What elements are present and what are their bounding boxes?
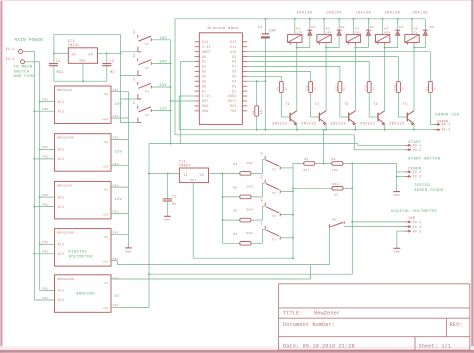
svg-text:R5: R5 bbox=[233, 186, 237, 190]
svg-text:12V: 12V bbox=[296, 30, 302, 34]
wire X1-1 to left bus bbox=[23, 51, 35, 53]
pin D12 (right 1) bbox=[242, 41, 247, 43]
svg-text:#5: #5 bbox=[332, 218, 336, 221]
pin D9 (right 4) bbox=[242, 56, 247, 58]
connector X2-2 bbox=[405, 175, 409, 177]
relay coil K5 5V bbox=[405, 35, 419, 43]
wire IC2 input stub bbox=[54, 52, 68, 54]
svg-text:500: 500 bbox=[246, 208, 252, 212]
wire coil K1 to +rail bbox=[294, 19, 296, 35]
wire X4-2 line bbox=[344, 226, 405, 228]
svg-text:ERROR LED: ERROR LED bbox=[435, 113, 460, 117]
svg-text:D7: D7 bbox=[232, 65, 236, 69]
svg-text:A0: A0 bbox=[202, 55, 206, 59]
svg-text:X2-2: X2-2 bbox=[413, 175, 422, 179]
wire IC2 gnd stub bbox=[82, 63, 84, 81]
wire bottom return rail bbox=[193, 257, 293, 259]
wire PB1 module M4 bbox=[40, 243, 55, 245]
svg-text:REV:: REV: bbox=[450, 322, 463, 328]
svg-text:10M: 10M bbox=[269, 29, 276, 33]
pin D2 (right 11) bbox=[242, 90, 247, 92]
relay coil K4 48V bbox=[376, 35, 390, 43]
pin D13 (left 1) bbox=[195, 41, 200, 43]
svg-text:TESTED: TESTED bbox=[414, 184, 431, 188]
svg-text:S1: S1 bbox=[133, 30, 136, 34]
wire 12V feed down to IC1 area bbox=[148, 144, 150, 308]
pin A3 (left 7) bbox=[195, 70, 200, 72]
svg-text:R1: R1 bbox=[305, 157, 309, 161]
svg-text:K3: K3 bbox=[260, 198, 263, 202]
svg-text:R4: R4 bbox=[233, 162, 237, 166]
svg-text:R10: R10 bbox=[306, 85, 309, 91]
svg-text:+U0: +U0 bbox=[102, 213, 108, 216]
svg-text:VO: VO bbox=[89, 52, 93, 56]
pin D5 (right 8) bbox=[242, 75, 247, 77]
wire PB1 module M3 bbox=[40, 196, 55, 198]
resistor R11 1k bbox=[338, 82, 342, 93]
pin A0 (left 4) bbox=[195, 56, 200, 58]
pins under coil K1 bbox=[289, 42, 291, 44]
svg-text:R3: R3 bbox=[426, 87, 429, 91]
svg-text:R2: R2 bbox=[332, 157, 336, 161]
svg-text:AC1: AC1 bbox=[58, 195, 65, 199]
svg-text:1k: 1k bbox=[342, 87, 346, 91]
svg-text:12V: 12V bbox=[115, 151, 123, 155]
resistor R13 1k bbox=[397, 82, 401, 93]
svg-text:D10: D10 bbox=[230, 50, 237, 54]
wire coil K2 to +rail bbox=[323, 19, 325, 35]
wire resistor R9 to base T1 bbox=[280, 93, 282, 117]
svg-text:T4: T4 bbox=[373, 102, 378, 106]
wire coil K3 to transistor collector bbox=[354, 45, 356, 111]
svg-text:1k: 1k bbox=[401, 87, 405, 91]
pins under coil K4 bbox=[377, 42, 379, 44]
page frame left edge bbox=[0, 0, 2, 353]
wire R1-R2 bbox=[315, 163, 332, 165]
svg-text:Sheet: 1/1: Sheet: 1/1 bbox=[419, 343, 452, 349]
svg-text:7812L: 7812L bbox=[68, 44, 80, 48]
svg-text:M1: M1 bbox=[110, 70, 115, 74]
svg-text:1N4148: 1N4148 bbox=[326, 11, 342, 15]
svg-text:200: 200 bbox=[246, 185, 252, 189]
wire emitter T1 to gnd rail bbox=[296, 124, 298, 130]
svg-text:2N2222: 2N2222 bbox=[331, 123, 347, 127]
wire lower throw S4 bbox=[120, 122, 137, 124]
wire pin to resistor R13 bbox=[247, 56, 398, 58]
svg-text:-U0: -U0 bbox=[102, 141, 108, 144]
resistor R9 1k bbox=[279, 82, 283, 93]
wire rail2 (to X3-2) bbox=[175, 134, 354, 136]
capacitor C2 bbox=[49, 63, 58, 65]
transistor T5 2N2222 bbox=[406, 113, 408, 122]
wire T2 emitter tie bbox=[323, 130, 325, 164]
svg-text:PB1: PB1 bbox=[42, 287, 48, 290]
svg-text:R12: R12 bbox=[365, 85, 368, 91]
wire PB1 module M5 bbox=[40, 290, 55, 292]
svg-text:GND: GND bbox=[125, 250, 131, 253]
wire feed R5 bbox=[223, 196, 240, 198]
pin A4 (left 8) bbox=[195, 75, 200, 77]
svg-text:+U0: +U0 bbox=[102, 118, 108, 121]
connector X5-2 bbox=[434, 129, 438, 131]
wire contact K2 output bbox=[280, 190, 293, 192]
svg-text:+U0: +U0 bbox=[102, 261, 108, 264]
svg-text:AND FUSE: AND FUSE bbox=[14, 75, 36, 79]
svg-text:A5: A5 bbox=[202, 79, 206, 83]
switch S1 (48V) bbox=[137, 35, 139, 38]
svg-text:T1: T1 bbox=[286, 102, 291, 106]
svg-text:X5-2: X5-2 bbox=[442, 128, 451, 132]
wire feed R7 bbox=[223, 242, 240, 244]
pin D10 (right 3) bbox=[242, 51, 247, 53]
svg-text:X2-1: X2-1 bbox=[413, 170, 422, 174]
svg-text:48V: 48V bbox=[384, 30, 390, 34]
svg-text:MODULE2X4B: MODULE2X4B bbox=[57, 278, 74, 281]
resistor R1 4k7 bbox=[304, 162, 315, 166]
wire FB3 stub M1 bbox=[111, 91, 129, 93]
wire resistor R12 to base T4 bbox=[368, 93, 370, 117]
pin RST1 (right 13) bbox=[242, 100, 247, 102]
svg-text:+U0: +U0 bbox=[102, 307, 108, 310]
module box M2 MODULE2X4B bbox=[55, 134, 112, 172]
wire coil K4 to transistor collector bbox=[384, 45, 386, 111]
pin GND2 (right 12) bbox=[242, 95, 247, 97]
wire feed to R14 bbox=[293, 187, 332, 189]
svg-text:PB2: PB2 bbox=[42, 108, 48, 111]
wire pin to resistor R10 bbox=[247, 70, 310, 72]
svg-text:AC2: AC2 bbox=[58, 252, 65, 256]
wire to pin 5V bbox=[179, 95, 194, 97]
svg-text:5.5V: 5.5V bbox=[202, 94, 211, 98]
module box M3 MODULE2X4 bbox=[55, 181, 112, 219]
svg-text:D4: D4 bbox=[399, 25, 403, 29]
resistor R14 33 bbox=[332, 187, 343, 191]
svg-text:X4-2: X4-2 bbox=[413, 225, 422, 229]
svg-text:VI: VI bbox=[184, 173, 188, 177]
svg-text:1k: 1k bbox=[284, 87, 288, 91]
wire lower throw S2 bbox=[120, 74, 137, 76]
svg-text:SWITCH: SWITCH bbox=[14, 70, 31, 74]
svg-text:R9: R9 bbox=[277, 87, 280, 91]
wire coil K2 to transistor collector bbox=[325, 45, 327, 111]
module box M5 MODULE2X4B bbox=[55, 275, 112, 313]
svg-text:AC1: AC1 bbox=[58, 243, 65, 247]
wire emitter T4 to gnd rail bbox=[384, 124, 386, 130]
wire module M4 FB4 to long rail bbox=[111, 260, 118, 262]
svg-text:12V: 12V bbox=[115, 198, 123, 202]
wire IC2 output bbox=[98, 52, 121, 54]
svg-text:START BUTTON: START BUTTON bbox=[408, 158, 441, 162]
transistor T2 2N2222 bbox=[318, 113, 320, 122]
svg-text:15k: 15k bbox=[332, 168, 338, 172]
wire FB column vertical bbox=[128, 92, 130, 248]
svg-text:12V: 12V bbox=[159, 108, 167, 112]
svg-text:1N4148: 1N4148 bbox=[412, 11, 428, 15]
svg-text:-U0: -U0 bbox=[102, 189, 108, 192]
svg-text:RX1: RX1 bbox=[230, 104, 237, 108]
wire PB2 module M4 bbox=[34, 253, 54, 255]
svg-text:RST1: RST1 bbox=[228, 99, 237, 103]
op-amp IC1 7805T bbox=[179, 168, 208, 183]
wire diode D5 to coil bbox=[414, 47, 425, 49]
wire gnd rail (to X5-2) bbox=[179, 129, 436, 131]
resistor R8 18k bbox=[256, 81, 258, 106]
svg-text:ZENER DIODE: ZENER DIODE bbox=[414, 189, 444, 193]
wire emitter T2 to gnd rail bbox=[325, 124, 327, 130]
wire PB1 module M1 bbox=[40, 101, 55, 103]
connector X2-1 bbox=[405, 171, 409, 173]
svg-text:D4: D4 bbox=[232, 79, 236, 83]
svg-text:Document Number:: Document Number: bbox=[283, 322, 335, 328]
svg-text:MODULE2X4B: MODULE2X4B bbox=[57, 232, 74, 235]
pin RST (left 13) bbox=[195, 100, 200, 102]
svg-text:C2: C2 bbox=[56, 59, 61, 63]
wire IC2 bottom rail bbox=[54, 80, 107, 82]
wire 12V rail (to X3-1) bbox=[149, 143, 358, 145]
wire PB2 module M5 bbox=[34, 299, 54, 301]
wire X2-2 to gnd bbox=[397, 175, 406, 177]
svg-text:D1: D1 bbox=[311, 25, 315, 29]
wire pin to resistor R9 bbox=[247, 75, 281, 77]
svg-text:T5: T5 bbox=[403, 102, 408, 106]
svg-text:X5-1: X5-1 bbox=[442, 123, 451, 127]
wire 12V to IC1 input bbox=[149, 172, 179, 174]
svg-text:24V: 24V bbox=[159, 84, 167, 88]
wire PB2 module M1 bbox=[34, 110, 54, 112]
wire R3 to X5-1 bbox=[429, 93, 431, 125]
svg-text:1k: 1k bbox=[371, 87, 375, 91]
pin AREF (left 3) bbox=[195, 51, 200, 53]
wire emitter T3 to gnd rail bbox=[354, 124, 356, 130]
svg-text:M33: M33 bbox=[57, 70, 64, 74]
pin GND (left 14) bbox=[195, 105, 200, 107]
wire resistor R11 to base T3 bbox=[339, 93, 341, 117]
svg-text:NewZener: NewZener bbox=[314, 310, 340, 316]
svg-text:GND: GND bbox=[79, 60, 85, 63]
svg-text:X3-1: X3-1 bbox=[413, 144, 422, 148]
svg-text:K2: K2 bbox=[260, 174, 263, 178]
wire coil K5 to +rail bbox=[411, 19, 413, 35]
wire FB3 stub M2 bbox=[111, 138, 129, 140]
svg-text:5V: 5V bbox=[413, 30, 417, 34]
svg-text:D6: D6 bbox=[232, 70, 236, 74]
wire contact collect vertical bbox=[292, 168, 294, 258]
wire switch output bus down bbox=[170, 40, 172, 144]
svg-text:VOLTMETER: VOLTMETER bbox=[69, 255, 94, 259]
wire FB4 stub M1 bbox=[111, 117, 129, 119]
svg-text:A1: A1 bbox=[202, 60, 206, 64]
svg-text:GND2: GND2 bbox=[228, 94, 237, 98]
ground below C5 bbox=[166, 201, 168, 216]
svg-text:PB2: PB2 bbox=[42, 297, 48, 300]
wire K5 pole feed bbox=[329, 228, 331, 265]
pins under coil K5 bbox=[406, 42, 408, 44]
svg-text:P2: P2 bbox=[273, 168, 277, 171]
module box M4 MODULE2X4B bbox=[55, 229, 112, 267]
svg-text:P1: P1 bbox=[145, 67, 149, 70]
wire feed R6 bbox=[223, 219, 240, 221]
resistor R10 1k bbox=[309, 82, 313, 93]
wire IC1 output bbox=[209, 172, 240, 174]
relay contact K1 pole bbox=[264, 156, 266, 159]
svg-text:PB1: PB1 bbox=[42, 241, 48, 244]
svg-text:GND: GND bbox=[164, 219, 170, 222]
connector X3-2 bbox=[405, 149, 409, 151]
svg-text:PB2: PB2 bbox=[42, 203, 48, 206]
svg-text:18k: 18k bbox=[259, 108, 263, 114]
svg-text:PB2: PB2 bbox=[42, 251, 48, 254]
wire IC1 ADJ down bbox=[192, 183, 194, 259]
pin 3.3V (left 2) bbox=[195, 46, 200, 48]
svg-text:A2: A2 bbox=[202, 65, 206, 69]
resistor R12 1k bbox=[367, 82, 371, 93]
wire PB2 module M3 bbox=[34, 206, 54, 208]
wire to R1 bbox=[293, 163, 304, 165]
svg-text:GND: GND bbox=[202, 104, 209, 108]
svg-text:A3: A3 bbox=[202, 70, 206, 74]
wire coil K1 to transistor collector bbox=[296, 45, 298, 111]
svg-text:+U0: +U0 bbox=[102, 166, 108, 169]
svg-text:-U0: -U0 bbox=[102, 93, 108, 96]
transistor T3 2N2222 bbox=[348, 113, 350, 122]
svg-text:D2: D2 bbox=[341, 25, 345, 29]
pin A1 (left 5) bbox=[195, 61, 200, 63]
svg-text:M1: M1 bbox=[172, 202, 177, 206]
svg-text:2N2222: 2N2222 bbox=[389, 123, 405, 127]
connector X4-1 bbox=[405, 221, 409, 223]
wire contact K1 output bbox=[280, 167, 293, 169]
title block frame bbox=[279, 284, 470, 350]
resistor R6 500 bbox=[240, 218, 251, 222]
connector X4-2 bbox=[405, 226, 409, 228]
svg-text:P1: P1 bbox=[145, 43, 149, 46]
svg-text:4k7: 4k7 bbox=[303, 168, 309, 172]
relay contact K3 pole bbox=[264, 203, 266, 206]
svg-text:AC2: AC2 bbox=[58, 205, 65, 209]
resistor R5 200 bbox=[240, 195, 251, 199]
pin 5.5V (left 12) bbox=[195, 95, 200, 97]
svg-text:MODULE2X4B: MODULE2X4B bbox=[57, 137, 74, 140]
page frame top edge bbox=[0, 0, 474, 1]
svg-text:S4: S4 bbox=[133, 100, 136, 104]
page frame right edge bbox=[471, 0, 473, 353]
svg-text:S3: S3 bbox=[133, 77, 136, 81]
pin RAW (left 15) bbox=[195, 110, 200, 112]
svg-text:X3-2: X3-2 bbox=[413, 148, 422, 152]
wire FB4 stub M3 bbox=[111, 212, 129, 214]
svg-text:A7: A7 bbox=[202, 89, 206, 93]
pin D7 (right 6) bbox=[242, 65, 247, 67]
svg-text:5V: 5V bbox=[115, 295, 121, 299]
wire C4 down to gnd rail bbox=[264, 39, 266, 130]
pin D8 (right 5) bbox=[242, 61, 247, 63]
wire coil K3 to +rail bbox=[352, 19, 354, 35]
svg-text:P2: P2 bbox=[273, 238, 277, 241]
wire X4-3 to gnd bbox=[397, 230, 405, 232]
pins under coil K3 bbox=[348, 42, 350, 44]
svg-text:C4: C4 bbox=[258, 25, 263, 29]
wire IC1 feed dot bbox=[148, 172, 150, 174]
wire R5 to contact bbox=[251, 196, 262, 198]
svg-text:K1: K1 bbox=[260, 151, 263, 155]
svg-text:PB1: PB1 bbox=[42, 146, 48, 149]
svg-text:D2: D2 bbox=[232, 89, 236, 93]
svg-text:3.3V: 3.3V bbox=[202, 45, 211, 49]
transistor T1 2N2222 bbox=[289, 113, 291, 122]
svg-text:P1: P1 bbox=[145, 114, 149, 117]
switch S4 (12V) bbox=[137, 106, 139, 109]
pin A7 (left 11) bbox=[195, 90, 200, 92]
svg-text:C5: C5 bbox=[172, 194, 177, 198]
wire pin to resistor R11 bbox=[247, 66, 340, 68]
svg-text:VO: VO bbox=[200, 173, 204, 177]
svg-text:GND: GND bbox=[393, 194, 399, 197]
svg-text:DIGITAL VOLTMETER: DIGITAL VOLTMETER bbox=[391, 210, 437, 214]
wire R7 to contact bbox=[251, 242, 262, 244]
svg-text:D3: D3 bbox=[232, 84, 236, 88]
svg-text:X1-1: X1-1 bbox=[6, 48, 15, 52]
wire X1-2 to second bus bbox=[25, 61, 40, 63]
svg-text:D5: D5 bbox=[232, 75, 236, 79]
svg-text:1k: 1k bbox=[433, 87, 437, 91]
svg-text:TX0: TX0 bbox=[230, 109, 237, 113]
svg-text:24V: 24V bbox=[325, 30, 331, 34]
svg-text:2N2222: 2N2222 bbox=[301, 123, 317, 127]
wire supply top rail bbox=[175, 18, 425, 20]
svg-text:1N4148: 1N4148 bbox=[297, 11, 313, 15]
svg-text:GND: GND bbox=[394, 251, 400, 254]
svg-text:R6: R6 bbox=[233, 209, 237, 213]
pin A5 (left 9) bbox=[195, 80, 200, 82]
svg-text:36V: 36V bbox=[355, 30, 361, 34]
svg-text:2N2222: 2N2222 bbox=[272, 123, 288, 127]
resistor R7 500 bbox=[240, 242, 251, 246]
capacitor C5 bbox=[166, 173, 168, 199]
svg-text:VI: VI bbox=[72, 52, 76, 56]
svg-text:D9: D9 bbox=[232, 55, 236, 59]
svg-text:36V: 36V bbox=[159, 61, 167, 65]
wire switch feed vertical bbox=[119, 34, 121, 122]
capacitor C3 bbox=[106, 53, 108, 63]
svg-text:MODULE2X4: MODULE2X4 bbox=[57, 184, 72, 187]
svg-text:DIGITAL: DIGITAL bbox=[69, 250, 88, 254]
svg-text:500: 500 bbox=[246, 231, 252, 235]
wire R6 to contact bbox=[251, 219, 262, 221]
svg-text:X4-1: X4-1 bbox=[413, 220, 422, 224]
switch S2 (36V) bbox=[137, 58, 139, 61]
wire FB3 stub M3 bbox=[111, 186, 129, 188]
svg-text:D8: D8 bbox=[232, 60, 236, 64]
svg-text:48V: 48V bbox=[159, 37, 167, 41]
ground below FB column bbox=[125, 247, 132, 249]
wire resistor R10 to base T2 bbox=[310, 93, 312, 117]
wire dvm vertical bbox=[351, 164, 353, 275]
svg-text:PB1: PB1 bbox=[42, 99, 48, 102]
wire FB4 stub M2 bbox=[111, 165, 129, 167]
wire pin D10 to R3 bbox=[247, 51, 430, 53]
svg-text:AC1: AC1 bbox=[58, 148, 65, 152]
relay contact K2 pole bbox=[264, 180, 266, 183]
pin A6 (left 10) bbox=[195, 85, 200, 87]
svg-text:FB4: FB4 bbox=[113, 304, 119, 307]
op-amp U IC2 regulator 7812L bbox=[68, 48, 97, 64]
svg-text:R14: R14 bbox=[332, 182, 338, 186]
svg-text:TITLE:: TITLE: bbox=[283, 310, 303, 316]
svg-text:S2: S2 bbox=[133, 53, 136, 57]
transistor T4 2N2222 bbox=[377, 113, 379, 122]
module box M1 MODULE2X4 bbox=[55, 86, 112, 124]
svg-text:C3: C3 bbox=[110, 59, 115, 63]
